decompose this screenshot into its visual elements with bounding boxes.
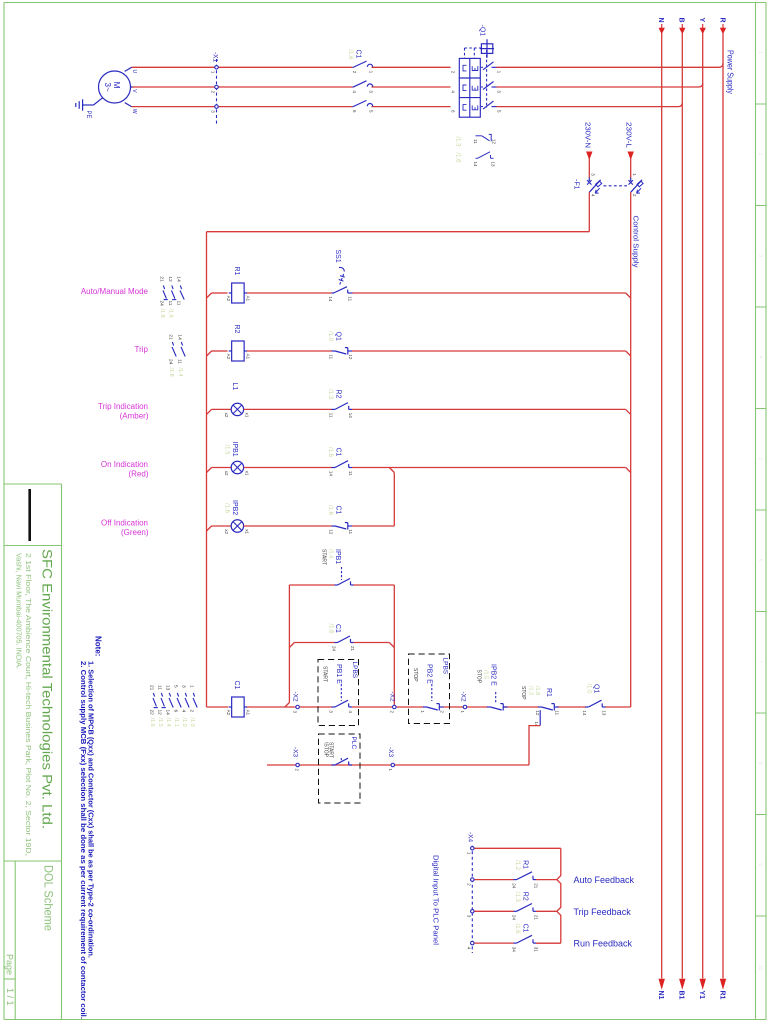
- svg-text:B: B: [678, 18, 685, 23]
- svg-text:5: 5: [757, 457, 763, 460]
- svg-text:11: 11: [167, 301, 173, 306]
- svg-text:9: 9: [757, 863, 763, 866]
- svg-text:-X1: -X1: [211, 52, 218, 63]
- svg-text:/1.0: /1.0: [585, 684, 591, 695]
- svg-text:N1: N1: [657, 991, 664, 1000]
- svg-text:LPBS: LPBS: [351, 662, 358, 679]
- svg-text:14: 14: [165, 710, 171, 716]
- svg-text:SFC Environmental Technologies: SFC Environmental Technologies Pvt. Ltd.: [40, 549, 55, 829]
- svg-text:/1.4: /1.4: [165, 718, 171, 727]
- svg-text:3~: 3~: [103, 83, 112, 92]
- svg-text:13: 13: [165, 685, 171, 691]
- svg-text:x2: x2: [224, 471, 229, 476]
- svg-text:STOP: STOP: [412, 668, 418, 682]
- svg-text:/1.8: /1.8: [534, 686, 540, 695]
- svg-text:4: 4: [757, 356, 763, 359]
- svg-text:/1.4: /1.4: [327, 549, 333, 558]
- svg-text:11: 11: [157, 685, 163, 690]
- svg-text:\STOP: \STOP: [322, 742, 328, 758]
- svg-text:24: 24: [332, 646, 337, 652]
- svg-text:3: 3: [757, 254, 763, 257]
- svg-text:/1.6: /1.6: [327, 447, 333, 458]
- svg-text:x2: x2: [224, 529, 229, 534]
- svg-text:A1: A1: [245, 354, 250, 360]
- svg-text:-Q1: -Q1: [479, 25, 486, 37]
- svg-text:LPBS: LPBS: [441, 658, 448, 675]
- svg-text:/1.1: /1.1: [173, 718, 179, 727]
- svg-text:6: 6: [757, 559, 763, 562]
- svg-text:R1: R1: [521, 860, 528, 869]
- svg-text:11: 11: [554, 710, 559, 715]
- svg-text:R1: R1: [545, 688, 552, 697]
- svg-text:Y1: Y1: [698, 991, 705, 1000]
- svg-text:C1: C1: [233, 681, 240, 690]
- svg-text:PE: PE: [85, 111, 91, 119]
- svg-text:B1: B1: [678, 991, 685, 1000]
- svg-text:IPB1: IPB1: [334, 549, 341, 564]
- svg-text:2: 2: [189, 710, 195, 713]
- svg-text:12: 12: [167, 276, 173, 282]
- svg-text:Y: Y: [698, 18, 705, 23]
- svg-text:Power Supply: Power Supply: [725, 50, 734, 94]
- svg-text:/1.6: /1.6: [514, 924, 520, 935]
- svg-text:Trip: Trip: [135, 345, 149, 354]
- svg-text:x1: x1: [244, 413, 249, 418]
- svg-text:12: 12: [157, 710, 163, 716]
- svg-text:/1.6: /1.6: [327, 505, 333, 516]
- svg-text:R: R: [718, 18, 725, 23]
- svg-text:Auto Feedback: Auto Feedback: [574, 875, 635, 885]
- svg-text:24: 24: [511, 883, 516, 889]
- svg-text:A2: A2: [226, 710, 231, 716]
- svg-text:A2: A2: [226, 296, 231, 302]
- svg-text:M: M: [112, 82, 122, 89]
- svg-text:SS1: SS1: [334, 250, 341, 263]
- svg-text:-X3: -X3: [387, 747, 394, 758]
- svg-text:12: 12: [329, 529, 334, 535]
- svg-text:/1.5: /1.5: [223, 445, 229, 456]
- svg-text:11: 11: [348, 296, 353, 301]
- svg-text:N: N: [657, 18, 664, 23]
- svg-text:START: START: [322, 666, 328, 682]
- svg-text:PB2 E: PB2 E: [426, 664, 433, 684]
- svg-text:/1.3: /1.3: [455, 137, 461, 148]
- svg-text:-X2: -X2: [292, 692, 299, 703]
- svg-text:A2: A2: [226, 354, 231, 360]
- svg-text:Q1: Q1: [592, 684, 599, 693]
- svg-text:-X2: -X2: [459, 692, 466, 703]
- svg-text:C1: C1: [335, 448, 342, 457]
- svg-text:11: 11: [348, 471, 353, 476]
- svg-text:-X2: -X2: [388, 692, 395, 703]
- svg-text:Note:: Note:: [94, 636, 103, 656]
- svg-text:Auto/Manual Mode: Auto/Manual Mode: [81, 287, 149, 296]
- svg-text:C1: C1: [335, 506, 342, 515]
- svg-text:21: 21: [149, 685, 155, 691]
- svg-text:1: 1: [189, 685, 195, 688]
- svg-text:/1.0: /1.0: [189, 718, 195, 727]
- svg-text:R2: R2: [335, 390, 342, 399]
- svg-text:Vashi, Navi Mumbai-400705. IND: Vashi, Navi Mumbai-400705. INDIA.: [14, 553, 23, 669]
- svg-text:21: 21: [159, 276, 165, 282]
- svg-text:L1: L1: [231, 383, 238, 391]
- svg-text:(Green): (Green): [121, 528, 149, 537]
- svg-text:R1: R1: [718, 991, 725, 1000]
- svg-text:IPB1: IPB1: [231, 442, 238, 457]
- svg-text:R2: R2: [521, 892, 528, 901]
- svg-text:2. Control supply MCB (Fxx) se: 2. Control supply MCB (Fxx) selection sh…: [79, 661, 88, 1019]
- svg-text:21: 21: [168, 334, 174, 340]
- svg-text:/1.5: /1.5: [157, 718, 163, 727]
- svg-text:24: 24: [168, 359, 174, 365]
- svg-text:/1.0: /1.0: [181, 718, 187, 727]
- svg-text:11: 11: [473, 139, 478, 144]
- svg-text:11: 11: [176, 301, 182, 306]
- svg-text:2 1st Floor, The Ambience Cour: 2 1st Floor, The Ambience Court, Hi-tech…: [24, 553, 33, 856]
- svg-text:12: 12: [491, 139, 496, 145]
- svg-text:/1.2: /1.2: [514, 860, 520, 871]
- svg-text:-X3: -X3: [292, 747, 299, 758]
- svg-text:14: 14: [176, 276, 182, 282]
- svg-text:3: 3: [181, 685, 187, 688]
- svg-text:STOP: STOP: [520, 686, 526, 700]
- svg-text:12: 12: [348, 354, 353, 360]
- svg-text:(Amber): (Amber): [120, 411, 149, 420]
- svg-text:/1.6: /1.6: [167, 309, 173, 318]
- svg-text:/1.6: /1.6: [223, 503, 229, 514]
- svg-text:C1: C1: [521, 924, 528, 933]
- svg-text:14: 14: [348, 413, 353, 419]
- svg-text:8: 8: [757, 762, 763, 765]
- svg-text:1 / 1: 1 / 1: [5, 988, 15, 1006]
- svg-text:/1.8: /1.8: [159, 309, 165, 318]
- svg-text:IPB2: IPB2: [231, 500, 238, 515]
- svg-text:22: 22: [149, 710, 155, 716]
- svg-text:START: START: [320, 549, 326, 565]
- svg-text:/1.6: /1.6: [455, 153, 461, 164]
- svg-text:Trip Indication: Trip Indication: [98, 402, 148, 411]
- svg-text:STOP: STOP: [475, 670, 481, 684]
- svg-text:13: 13: [601, 710, 606, 716]
- svg-text:PB1 E: PB1 E: [335, 664, 342, 684]
- svg-text:10: 10: [757, 965, 763, 971]
- svg-text:On Indication: On Indication: [101, 460, 148, 469]
- svg-text:34: 34: [511, 947, 516, 953]
- svg-text:11: 11: [329, 354, 334, 359]
- svg-text:Q1: Q1: [335, 332, 342, 341]
- svg-text:DOL Scheme: DOL Scheme: [41, 865, 55, 931]
- svg-text:R2: R2: [233, 325, 240, 334]
- svg-text:21: 21: [533, 915, 538, 921]
- svg-text:/1.6: /1.6: [149, 718, 155, 727]
- svg-text:PLC: PLC: [350, 737, 357, 750]
- svg-text:-F1: -F1: [573, 179, 580, 190]
- svg-text:12: 12: [535, 710, 540, 716]
- svg-text:/1.4: /1.4: [177, 368, 183, 377]
- svg-text:4: 4: [181, 710, 187, 713]
- svg-text:C1: C1: [334, 624, 341, 633]
- svg-text:x1: x1: [244, 529, 249, 534]
- svg-text:5: 5: [173, 685, 179, 688]
- svg-text:14: 14: [177, 334, 183, 340]
- svg-text:/1.8: /1.8: [168, 368, 174, 377]
- svg-text:21: 21: [350, 646, 355, 652]
- svg-text:14: 14: [329, 471, 334, 477]
- svg-text:14: 14: [473, 162, 478, 168]
- svg-text:(Red): (Red): [128, 470, 148, 479]
- svg-text:230V-N: 230V-N: [583, 122, 592, 148]
- svg-text:14: 14: [328, 296, 333, 302]
- svg-text:/1.6: /1.6: [327, 624, 333, 635]
- svg-text:Off Indication: Off Indication: [101, 519, 148, 528]
- svg-text:A1: A1: [245, 710, 250, 716]
- svg-text:1: 1: [757, 51, 763, 54]
- svg-text:Run Feedback: Run Feedback: [574, 939, 633, 949]
- svg-text:-X4: -X4: [466, 832, 473, 843]
- svg-text:Control Supply: Control Supply: [631, 216, 640, 268]
- svg-text:24: 24: [159, 301, 165, 307]
- svg-text:/1.0: /1.0: [327, 331, 333, 342]
- svg-text:11: 11: [329, 413, 334, 418]
- svg-text:A1: A1: [245, 296, 250, 302]
- svg-text:Digital Input To PLC Panel: Digital Input To PLC Panel: [431, 855, 440, 945]
- svg-text:/1.3: /1.3: [514, 892, 520, 903]
- svg-text:R1: R1: [233, 267, 240, 276]
- svg-text:230V-L: 230V-L: [625, 122, 634, 148]
- svg-text:U: U: [131, 70, 137, 74]
- svg-text:11: 11: [177, 359, 183, 364]
- svg-text:/1.3: /1.3: [327, 389, 333, 400]
- svg-text:/1.6: /1.6: [347, 50, 353, 61]
- svg-text:24: 24: [511, 915, 516, 921]
- svg-text:W: W: [131, 109, 137, 114]
- svg-text:/1.2: /1.2: [527, 686, 533, 695]
- svg-text:14: 14: [582, 710, 587, 716]
- svg-text:13: 13: [490, 162, 495, 168]
- svg-text:Trip Feedback: Trip Feedback: [574, 907, 632, 917]
- svg-text:21: 21: [533, 883, 538, 889]
- svg-text:7: 7: [757, 660, 763, 663]
- svg-text:2: 2: [757, 153, 763, 156]
- svg-text:IPB2 E: IPB2 E: [490, 664, 497, 686]
- svg-text:6: 6: [173, 710, 179, 713]
- svg-text:31: 31: [533, 947, 538, 953]
- svg-text:x1: x1: [244, 471, 249, 476]
- svg-text:/1.5: /1.5: [482, 670, 488, 679]
- svg-text:x2: x2: [224, 413, 229, 418]
- svg-text:11: 11: [348, 529, 353, 534]
- svg-text:C1: C1: [355, 50, 362, 59]
- svg-text:Page: Page: [5, 954, 15, 975]
